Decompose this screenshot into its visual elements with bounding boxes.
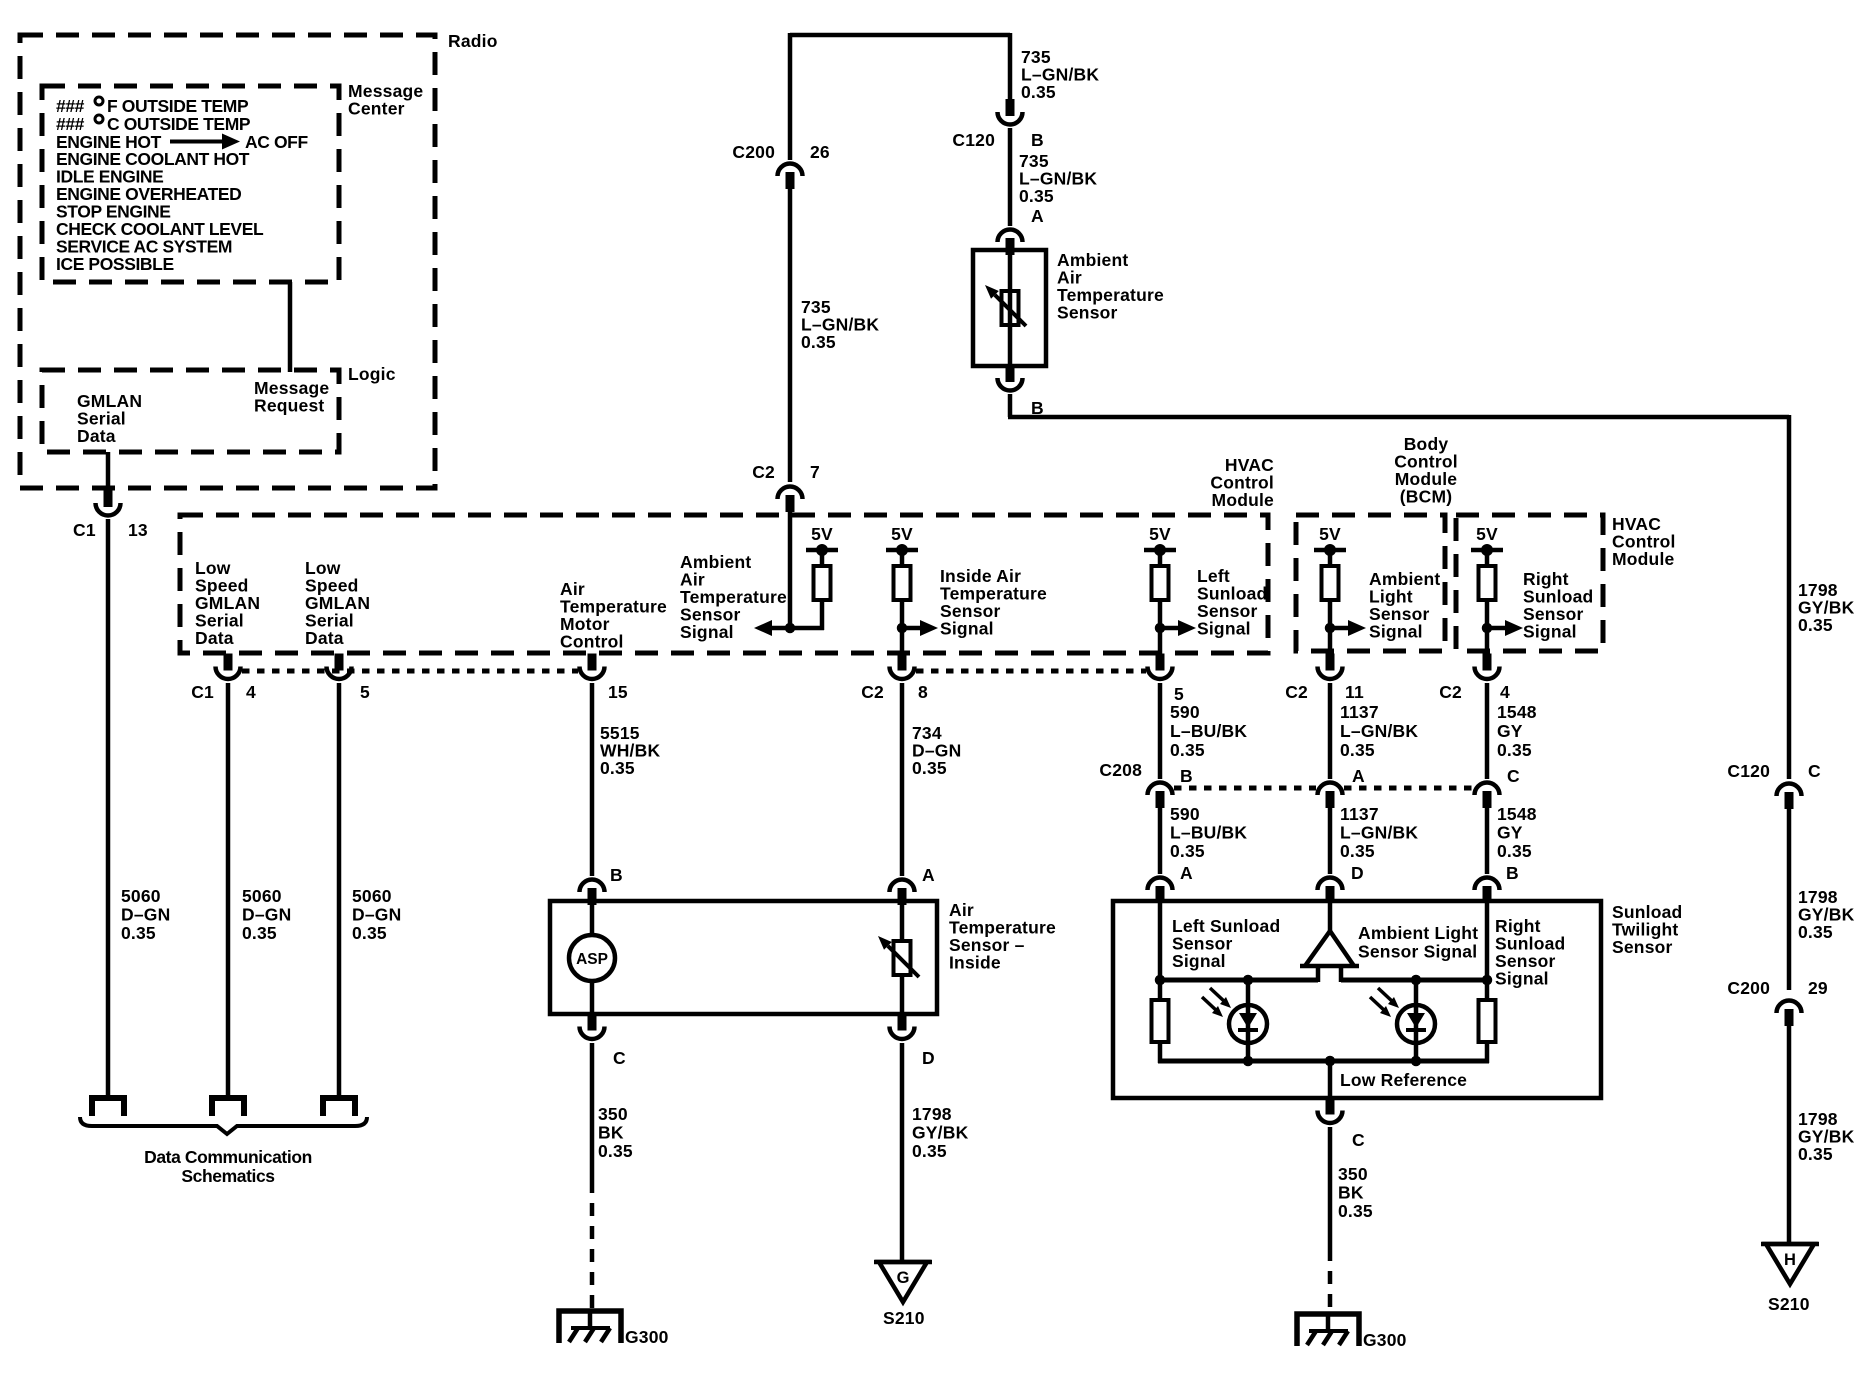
- svg-text:AC OFF: AC OFF: [245, 132, 308, 152]
- junction node right sunload signal: [1482, 623, 1493, 634]
- svg-text:1548: 1548: [1497, 804, 1537, 824]
- junction node ambient light signal: [1325, 623, 1336, 634]
- top bus right segment: [1341, 978, 1489, 983]
- svg-text:0.35: 0.35: [1021, 82, 1056, 102]
- svg-text:0.35: 0.35: [1798, 922, 1833, 942]
- wire label 734 D-GN 0.35: [912, 723, 961, 778]
- connector C208 pin C: [1475, 783, 1500, 809]
- wire logic box to radio box edge: [106, 452, 111, 492]
- ground G300 (right): [1297, 1314, 1359, 1346]
- connector C120 pin C: [1777, 784, 1802, 810]
- wire through ambient sensor: [1008, 252, 1013, 366]
- connector pin A into inside air temp sensor: [890, 880, 915, 906]
- svg-text:Ambient Light: Ambient Light: [1358, 923, 1478, 943]
- svg-text:GY: GY: [1497, 721, 1523, 741]
- light arrows photodiode 1: [1202, 988, 1231, 1017]
- svg-text:Module: Module: [1212, 490, 1275, 510]
- wire pin B to top bus: [1485, 901, 1490, 980]
- svg-text:5060: 5060: [121, 886, 161, 906]
- svg-text:Control: Control: [560, 632, 624, 652]
- connector C1 pin 5: [327, 654, 352, 680]
- wire into inside thermistor: [900, 903, 905, 941]
- variable-resistance arrow of inside sensor: [878, 936, 919, 977]
- label Ambient Light Sensor Signal (inside): [1358, 923, 1478, 962]
- wire 1798 GY/BK down right side to C120-C: [1787, 415, 1792, 779]
- wire label 735 L-GN/BK 0.35 (top right): [1021, 47, 1099, 102]
- 5V pull-up resistor for ambient light sensor signal: [1314, 524, 1346, 630]
- wire 735 L-GN/BK from C200-26 to C2-7: [788, 186, 793, 482]
- HVAC control module dashed box (right): [1456, 515, 1603, 651]
- connector C1 pin 4: [216, 654, 241, 680]
- connector C208 pin B: [1148, 783, 1173, 809]
- svg-text:C: C: [1507, 766, 1520, 786]
- wire 1548 GY C208-C down: [1485, 806, 1490, 874]
- label Left Sunload Sensor Signal: [1197, 566, 1267, 639]
- connector C2 pin 7: [778, 486, 803, 512]
- svg-text:BK: BK: [598, 1123, 624, 1143]
- wire low reference to pin C: [1328, 1061, 1333, 1098]
- svg-text:1548: 1548: [1497, 702, 1537, 722]
- wire through photodiode 2: [1414, 980, 1419, 1061]
- svg-text:7: 7: [810, 462, 820, 482]
- wire down to pin 5: [1158, 628, 1163, 654]
- svg-text:0.35: 0.35: [242, 923, 277, 943]
- wire message center to logic: [288, 282, 293, 372]
- connector C2 pin 4: [1475, 654, 1500, 680]
- wire 590 L-BU/BK pin 5 down: [1158, 683, 1163, 779]
- signal arrow ambient light: [1332, 620, 1366, 636]
- svg-text:C: C: [613, 1048, 626, 1068]
- svg-text:0.35: 0.35: [912, 758, 947, 778]
- svg-text:Sensor: Sensor: [1057, 303, 1118, 323]
- connector C2 pin 8: [890, 654, 915, 680]
- svg-text:C2: C2: [861, 682, 884, 702]
- 5V pull-up resistor for ambient air temperature sensor signal: [806, 524, 838, 630]
- svg-text:0.35: 0.35: [1340, 841, 1375, 861]
- svg-text:###: ###: [56, 96, 85, 116]
- wire left resistor to bottom bus: [1158, 1042, 1163, 1063]
- svg-text:0.35: 0.35: [1338, 1201, 1373, 1221]
- radio module dashed box: [20, 35, 435, 488]
- wire 5515 WH/BK pin 15 down: [590, 683, 595, 876]
- message center display lines 4-10: [56, 149, 264, 274]
- signal arrow pointing left to label: [754, 620, 788, 636]
- wire label 590 L-BU/BK 0.35 (upper): [1170, 702, 1247, 760]
- connector pin 5 (left sunload): [1148, 654, 1173, 680]
- wire label 1137 L-GN/BK 0.35 (lower): [1340, 804, 1418, 861]
- wire from ASP to pin C: [590, 980, 595, 1014]
- svg-text:S210: S210: [883, 1308, 925, 1328]
- wire from thermistor to pin D: [900, 975, 905, 1014]
- 5V pull-up resistor for left sunload sensor signal: [1144, 524, 1176, 630]
- svg-text:Signal: Signal: [1197, 619, 1251, 639]
- wire 1548 GY pin 4 down: [1485, 683, 1490, 779]
- air temperature sensor - inside box: [550, 901, 937, 1014]
- connector C120 pin B: [998, 99, 1023, 125]
- svg-text:0.35: 0.35: [598, 1141, 633, 1161]
- variable-resistance arrow of ambient sensor: [985, 285, 1026, 326]
- svg-text:0.35: 0.35: [1340, 740, 1375, 760]
- svg-text:C200: C200: [732, 142, 775, 162]
- splice S210 triangle G: [874, 1262, 932, 1302]
- svg-text:Radio: Radio: [448, 31, 498, 51]
- svg-text:C1: C1: [73, 520, 96, 540]
- thermistor element of ambient sensor: [1002, 291, 1019, 325]
- svg-text:D: D: [1351, 863, 1364, 883]
- svg-text:350: 350: [598, 1104, 628, 1124]
- svg-text:###: ###: [56, 114, 85, 134]
- brace data communication schematics: [80, 1117, 367, 1134]
- label Right Sunload Sensor Signal: [1523, 569, 1593, 642]
- body control module dashed box: [1296, 515, 1445, 651]
- wire label 1137 L-GN/BK 0.35 (upper): [1340, 702, 1418, 760]
- ground G300 (left): [559, 1311, 621, 1343]
- svg-text:Data: Data: [305, 628, 344, 648]
- svg-text:C208: C208: [1099, 760, 1142, 780]
- svg-text:Signal: Signal: [1369, 622, 1423, 642]
- junction photodiode 1 bottom: [1243, 1056, 1254, 1067]
- wire 1798 GY/BK to splice S210 H: [1787, 1025, 1792, 1246]
- label Message Request: [254, 378, 329, 416]
- svg-text:A: A: [922, 865, 935, 885]
- wire C2-7 into HVAC module: [788, 511, 793, 630]
- wire through photodiode 1: [1246, 980, 1251, 1061]
- svg-text:Sensor Signal: Sensor Signal: [1358, 942, 1477, 962]
- connector C200 pin 26: [778, 164, 803, 190]
- label Data Communication Schematics: [144, 1147, 312, 1186]
- svg-text:5V: 5V: [811, 524, 833, 544]
- svg-text:C2: C2: [752, 462, 775, 482]
- wire 350 BK dashed to G300 right: [1328, 1248, 1333, 1314]
- signal arrow left sunload: [1162, 620, 1196, 636]
- svg-text:0.35: 0.35: [1170, 740, 1205, 760]
- svg-text:8: 8: [918, 682, 928, 702]
- amplifier left leg: [1316, 966, 1321, 982]
- wire from sensor pin B down: [1008, 394, 1013, 417]
- svg-text:C1: C1: [191, 682, 214, 702]
- connector pin C below sunload sensor: [1318, 1098, 1343, 1124]
- wire 1798 GY/BK horizontal to right edge: [1008, 415, 1789, 420]
- junction node ambient air temp signal: [785, 623, 796, 634]
- svg-text:ICE POSSIBLE: ICE POSSIBLE: [56, 254, 174, 274]
- wire 1137 L-GN/BK C208-A down: [1328, 806, 1333, 874]
- label Body Control Module (BCM): [1394, 434, 1458, 507]
- label Left Sunload Sensor Signal (inside): [1172, 916, 1280, 971]
- svg-text:C120: C120: [952, 130, 995, 150]
- svg-text:Data Communication: Data Communication: [144, 1147, 312, 1167]
- svg-text:5V: 5V: [1476, 524, 1498, 544]
- wire label 735 L-GN/BK 0.35 (to sensor): [1019, 151, 1097, 206]
- label Ambient Air Temperature Sensor: [1057, 250, 1164, 323]
- junction node left sunload signal: [1155, 623, 1166, 634]
- svg-text:S210: S210: [1768, 1294, 1810, 1314]
- dashed connector line C208 left: [1174, 786, 1316, 791]
- svg-text:C200: C200: [1727, 978, 1770, 998]
- wire label 350 BK 0.35 (left): [598, 1104, 633, 1161]
- wire 5060 D-GN pin 5 down: [337, 683, 342, 1098]
- svg-text:Signal: Signal: [680, 622, 734, 642]
- connector pin B below ambient sensor: [998, 365, 1023, 391]
- svg-text:5060: 5060: [242, 886, 282, 906]
- wire 350 BK solid part (right): [1328, 1127, 1333, 1248]
- label HVAC Control Module (left box): [1210, 455, 1274, 510]
- wire into ASP element: [590, 903, 595, 936]
- svg-text:0.35: 0.35: [352, 923, 387, 943]
- junction right sunload resistor: [1482, 975, 1493, 986]
- svg-text:C: C: [1808, 761, 1821, 781]
- wire label 1798 GY/BK 0.35 (middle): [912, 1104, 969, 1161]
- svg-text:1137: 1137: [1340, 702, 1379, 722]
- wire label 1548 GY 0.35 (upper): [1497, 702, 1537, 760]
- svg-text:G300: G300: [625, 1327, 669, 1347]
- sunload twilight sensor box: [1113, 901, 1601, 1098]
- wire down to C2-8: [900, 628, 905, 654]
- svg-text:Inside: Inside: [949, 953, 1001, 973]
- svg-text:0.35: 0.35: [600, 758, 635, 778]
- svg-text:Signal: Signal: [1495, 969, 1549, 989]
- off-page terminal (C1-13 wire): [92, 1098, 124, 1116]
- wire label 590 L-BU/BK 0.35 (lower): [1170, 804, 1247, 861]
- connector C2 pin 11: [1318, 654, 1343, 680]
- svg-text:0.35: 0.35: [1798, 615, 1833, 635]
- label Air Temperature Sensor - Inside: [949, 900, 1056, 973]
- svg-text:D: D: [922, 1048, 935, 1068]
- connector pin B into sunload sensor: [1475, 877, 1500, 903]
- top bus left segment: [1158, 978, 1318, 983]
- svg-text:0.35: 0.35: [912, 1141, 947, 1161]
- svg-text:C2: C2: [1439, 682, 1462, 702]
- wire 350 BK solid part: [590, 1043, 595, 1180]
- svg-text:0.35: 0.35: [121, 923, 156, 943]
- svg-text:4: 4: [246, 682, 256, 702]
- svg-text:D–GN: D–GN: [242, 905, 291, 925]
- amplifier triangle of ambient light sensor: [1305, 931, 1354, 966]
- svg-text:G: G: [897, 1269, 910, 1287]
- svg-text:D–GN: D–GN: [352, 905, 401, 925]
- svg-text:590: 590: [1170, 804, 1200, 824]
- svg-text:0.35: 0.35: [1497, 740, 1532, 760]
- wire down to C200-26: [788, 33, 793, 160]
- svg-text:5V: 5V: [1149, 524, 1171, 544]
- svg-text:350: 350: [1338, 1164, 1368, 1184]
- wire 590 L-BU/BK C208-B down: [1158, 806, 1163, 874]
- svg-text:Data: Data: [195, 628, 234, 648]
- svg-text:(BCM): (BCM): [1400, 487, 1453, 507]
- svg-text:C2: C2: [1285, 682, 1308, 702]
- svg-text:5: 5: [360, 682, 370, 702]
- svg-text:0.35: 0.35: [1497, 841, 1532, 861]
- logic dashed box: [42, 370, 339, 452]
- photodiode 2 (right sunload): [1397, 1005, 1435, 1043]
- svg-text:26: 26: [810, 142, 830, 162]
- svg-text:F OUTSIDE TEMP: F OUTSIDE TEMP: [107, 96, 249, 116]
- svg-text:B: B: [1180, 766, 1193, 786]
- svg-text:Signal: Signal: [940, 619, 994, 639]
- svg-text:G300: G300: [1363, 1330, 1407, 1350]
- wire 735 L-GN/BK C120-B to sensor pin A: [1008, 128, 1013, 226]
- wire resistor to junction: [790, 626, 824, 631]
- connector pin A into sunload sensor: [1148, 877, 1173, 903]
- svg-text:Request: Request: [254, 396, 324, 416]
- svg-text:Sensor: Sensor: [1612, 937, 1673, 957]
- svg-text:15: 15: [608, 682, 628, 702]
- svg-text:L–BU/BK: L–BU/BK: [1170, 721, 1247, 741]
- ambient air temperature sensor box: [973, 250, 1046, 366]
- svg-text:B: B: [1031, 130, 1044, 150]
- wire top horizontal 735 L-GN/BK: [790, 33, 1010, 38]
- wire label 5515 WH/BK 0.35: [600, 723, 660, 778]
- svg-text:C120: C120: [1727, 761, 1770, 781]
- label Ambient Light Sensor Signal: [1369, 569, 1440, 642]
- junction photodiode 2 top: [1411, 975, 1422, 986]
- svg-text:Module: Module: [1612, 549, 1675, 569]
- aspirator motor ASP: [569, 935, 615, 981]
- svg-text:Data: Data: [77, 426, 116, 446]
- connector C1 pin 13: [95, 490, 120, 516]
- svg-text:Signal: Signal: [1172, 951, 1226, 971]
- wire 1798 GY/BK to splice S210: [900, 1043, 905, 1262]
- connector pin D below inside sensor: [890, 1014, 915, 1040]
- svg-text:5: 5: [1174, 684, 1184, 704]
- wire label 5060 D-GN 0.35 (pin 4): [242, 886, 291, 943]
- label Low Speed GMLAN Serial Data (pin 5): [305, 558, 370, 648]
- svg-text:1137: 1137: [1340, 804, 1379, 824]
- svg-text:Signal: Signal: [1523, 622, 1577, 642]
- label Right Sunload Sensor Signal (inside): [1495, 916, 1565, 989]
- svg-text:0.35: 0.35: [801, 332, 836, 352]
- left sunload resistor: [1152, 1000, 1169, 1042]
- wire label 1798 GY/BK 0.35 (right lower): [1798, 1109, 1855, 1164]
- splice S210 triangle H: [1761, 1244, 1819, 1284]
- label Low Speed GMLAN Serial Data (pin 4): [195, 558, 260, 648]
- svg-text:Logic: Logic: [348, 364, 396, 384]
- svg-text:0.35: 0.35: [1019, 186, 1054, 206]
- wire pin D to amplifier: [1328, 901, 1333, 933]
- wire label 735 L-GN/BK 0.35 (middle): [801, 297, 879, 352]
- svg-text:B: B: [1506, 863, 1519, 883]
- svg-text:GY: GY: [1497, 823, 1523, 843]
- 5V pull-up resistor for inside air temperature sensor signal: [886, 524, 918, 630]
- svg-text:0.35: 0.35: [1170, 841, 1205, 861]
- junction low reference: [1325, 1056, 1336, 1067]
- label GMLAN Serial Data: [77, 391, 142, 446]
- dashed connector line C208 right: [1344, 786, 1473, 791]
- wire label 350 BK 0.35 (right): [1338, 1164, 1373, 1221]
- wire label 1798 GY/BK 0.35 (right upper): [1798, 580, 1855, 635]
- wire 1137 L-GN/BK pin 11 down: [1328, 683, 1333, 779]
- connector C208 pin A: [1318, 783, 1343, 809]
- label Air Temperature Motor Control: [560, 579, 667, 652]
- svg-text:0.35: 0.35: [1798, 1144, 1833, 1164]
- svg-text:L–GN/BK: L–GN/BK: [1340, 721, 1418, 741]
- svg-text:L–BU/BK: L–BU/BK: [1170, 823, 1247, 843]
- wire right resistor to bottom bus: [1485, 1042, 1490, 1063]
- svg-text:Schematics: Schematics: [181, 1166, 275, 1186]
- connector pin C below inside sensor: [580, 1014, 605, 1040]
- svg-text:4: 4: [1500, 682, 1510, 702]
- junction node inside air temp signal: [897, 623, 908, 634]
- dotted connector line C2: [916, 669, 1146, 674]
- photodiode 1 (left sunload): [1229, 1005, 1267, 1043]
- svg-text:BK: BK: [1338, 1183, 1364, 1203]
- connector pin A of ambient air temperature sensor: [998, 229, 1023, 255]
- message center dashed box: [42, 86, 339, 282]
- svg-text:5060: 5060: [352, 886, 392, 906]
- svg-text:5V: 5V: [891, 524, 913, 544]
- connector pin D into sunload sensor: [1318, 877, 1343, 903]
- svg-text:H: H: [1784, 1251, 1796, 1269]
- right sunload resistor: [1479, 1000, 1496, 1042]
- amplifier right leg: [1339, 966, 1344, 982]
- svg-text:13: 13: [128, 520, 148, 540]
- svg-text:B: B: [610, 865, 623, 885]
- svg-text:ASP: ASP: [576, 951, 608, 968]
- svg-text:1798: 1798: [912, 1104, 952, 1124]
- wire label 1548 GY 0.35 (lower): [1497, 804, 1537, 861]
- svg-text:Center: Center: [348, 99, 405, 119]
- svg-text:Low Reference: Low Reference: [1340, 1070, 1467, 1090]
- wire label 5060 D-GN 0.35 (left): [121, 886, 170, 943]
- svg-text:A: A: [1352, 766, 1365, 786]
- label Sunload Twilight Sensor: [1612, 902, 1682, 957]
- junction photodiode 1 top: [1243, 975, 1254, 986]
- bottom bus low reference: [1158, 1059, 1489, 1064]
- junction photodiode 2 bottom: [1411, 1056, 1422, 1067]
- connector pin 15: [580, 654, 605, 680]
- wire down to C2-4: [1485, 628, 1490, 652]
- connector pin B into inside air temp sensor: [580, 880, 605, 906]
- signal arrow right sunload: [1489, 620, 1523, 636]
- wire 5060 D-GN pin 4 down: [226, 683, 231, 1098]
- wire 734 D-GN pin 8 down: [900, 683, 905, 876]
- off-page terminal (pin 4 wire): [212, 1098, 244, 1116]
- off-page terminal (pin 5 wire): [323, 1098, 355, 1116]
- svg-text:A: A: [1180, 863, 1193, 883]
- label Message Center: [348, 81, 423, 119]
- wire down to C120-B: [1008, 33, 1013, 101]
- wire 1798 GY/BK between C120-C and C200-29: [1787, 808, 1792, 990]
- svg-text:590: 590: [1170, 702, 1200, 722]
- svg-text:29: 29: [1808, 978, 1828, 998]
- svg-text:L–GN/BK: L–GN/BK: [1340, 823, 1418, 843]
- HVAC control module dashed box: [180, 515, 1268, 653]
- label Inside Air Temperature Sensor Signal: [940, 566, 1047, 639]
- amplifier triangle base: [1300, 964, 1359, 969]
- signal arrow inside air temp: [904, 620, 938, 636]
- wire down to C2-11: [1328, 628, 1333, 652]
- wire label 5060 D-GN 0.35 (pin 5): [352, 886, 401, 943]
- wire label 1798 GY/BK 0.35 (right middle): [1798, 887, 1855, 942]
- wire pin A to top bus: [1158, 901, 1163, 980]
- wire to left resistor: [1158, 980, 1163, 1000]
- svg-text:GY/BK: GY/BK: [912, 1123, 969, 1143]
- wire 5060 D-GN from C1-13 to data-comm terminal: [106, 519, 111, 1098]
- label Ambient Air Temperature Sensor Signal: [680, 552, 787, 642]
- svg-text:C OUTSIDE TEMP: C OUTSIDE TEMP: [107, 114, 251, 134]
- svg-text:D–GN: D–GN: [121, 905, 170, 925]
- connector C200 pin 29: [1777, 1001, 1802, 1027]
- thermistor element of inside sensor: [894, 941, 911, 975]
- svg-text:C: C: [1352, 1130, 1365, 1150]
- svg-text:A: A: [1031, 206, 1044, 226]
- dotted connector line C1: [242, 669, 578, 674]
- wire 350 BK dashed to G300: [590, 1180, 595, 1311]
- svg-text:5V: 5V: [1319, 524, 1341, 544]
- 5V pull-up resistor for right sunload sensor signal: [1471, 524, 1503, 630]
- light arrows photodiode 2: [1370, 988, 1399, 1017]
- junction left sunload resistor: [1155, 975, 1166, 986]
- svg-text:11: 11: [1345, 682, 1364, 702]
